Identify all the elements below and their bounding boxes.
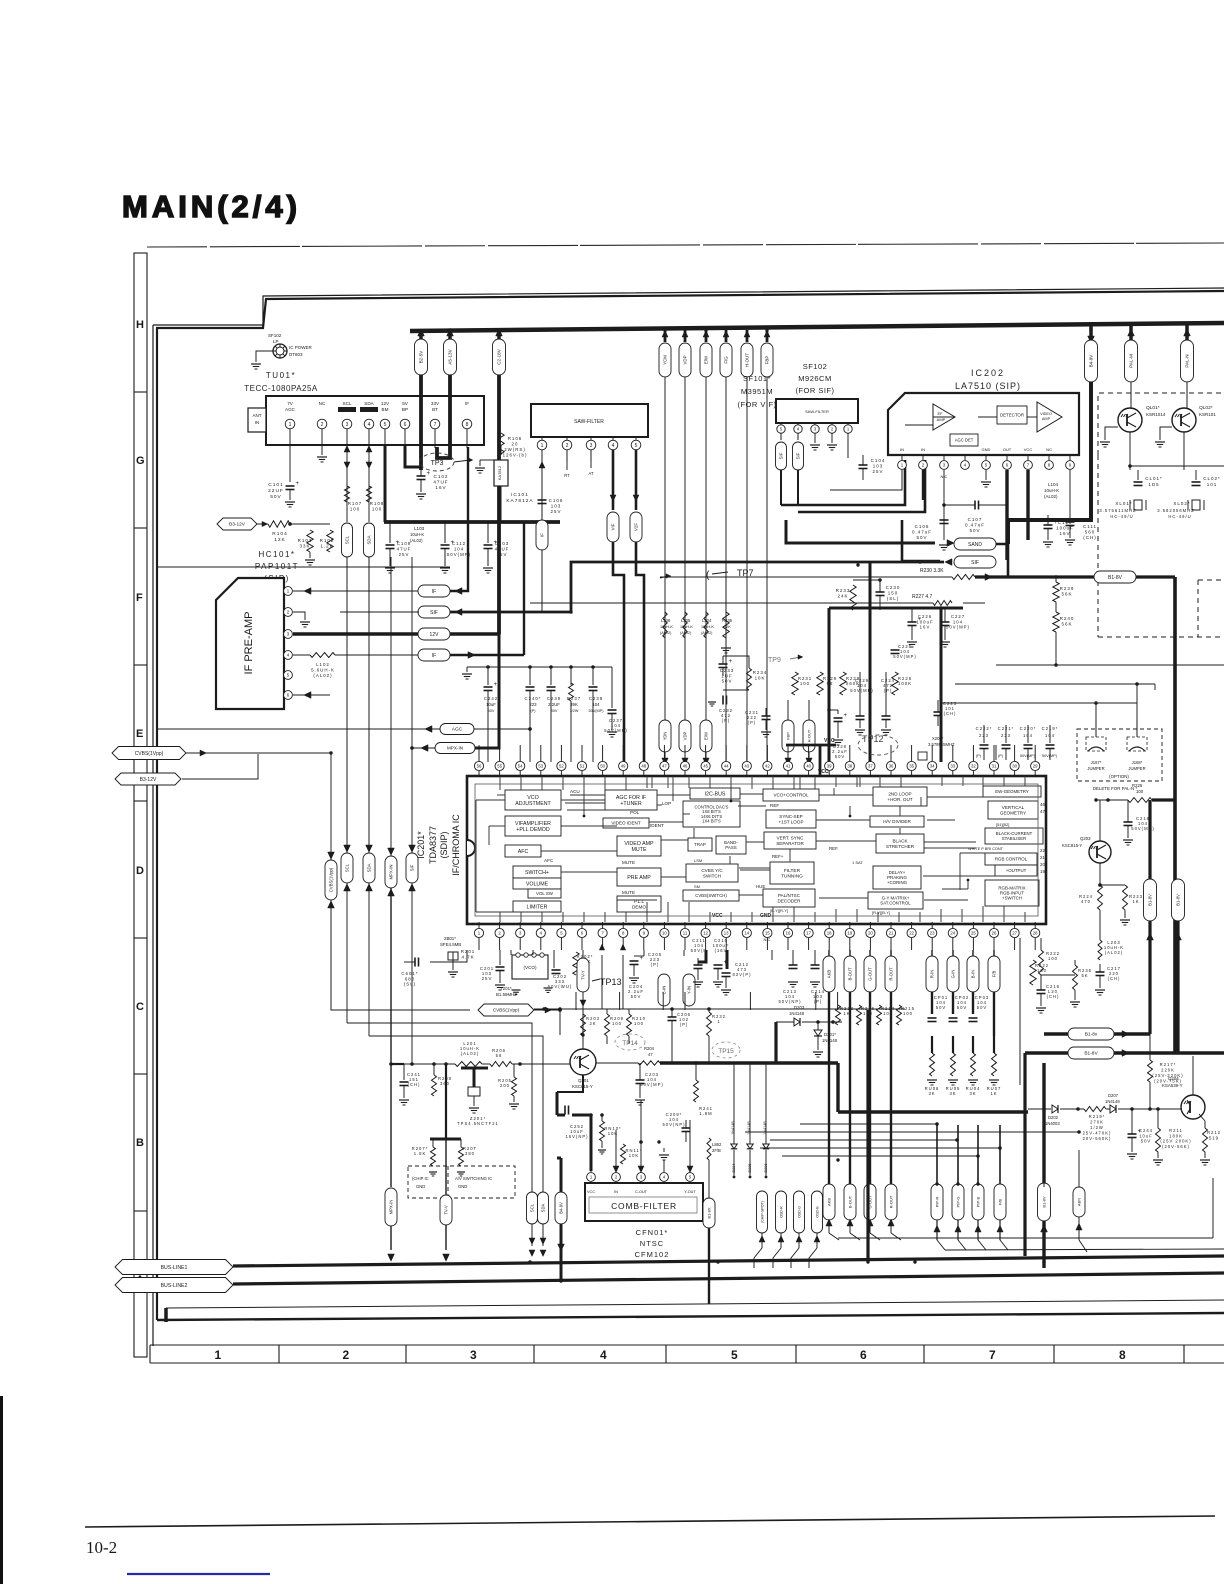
svg-text:AKB: AKB xyxy=(827,970,832,979)
svg-text:E/W: E/W xyxy=(704,732,709,740)
svg-text:M3951M: M3951M xyxy=(741,387,773,396)
svg-text:R103: R103 xyxy=(298,538,313,543)
svg-text:7: 7 xyxy=(989,1348,996,1362)
svg-text:50V: 50V xyxy=(631,994,642,999)
svg-text:5: 5 xyxy=(635,443,638,449)
svg-text:TP15: TP15 xyxy=(718,1048,734,1055)
svg-text:IC201*: IC201* xyxy=(416,831,426,859)
svg-text:15: 15 xyxy=(765,931,770,936)
svg-text:TDA8377: TDA8377 xyxy=(428,826,438,864)
svg-text:48: 48 xyxy=(641,764,646,769)
svg-text:+CORING: +CORING xyxy=(887,880,908,885)
svg-text:50V(NP): 50V(NP) xyxy=(662,1122,685,1127)
svg-text:(FOR VIF): (FOR VIF) xyxy=(737,400,776,409)
svg-text:HC101*: HC101* xyxy=(258,550,295,559)
svg-text:3.575611MHZ: 3.575611MHZ xyxy=(1099,508,1136,513)
svg-text:10: 10 xyxy=(662,931,667,936)
svg-text:3K: 3K xyxy=(969,1091,976,1096)
svg-text:SIF: SIF xyxy=(796,452,801,459)
svg-text:(AL02): (AL02) xyxy=(410,538,423,543)
svg-text:63V(P): 63V(P) xyxy=(732,972,751,977)
svg-text:SCL: SCL xyxy=(345,863,350,872)
svg-text:D207: D207 xyxy=(1108,1093,1119,1098)
svg-text:N.C: N.C xyxy=(764,937,771,942)
svg-text:VIDEO IDENT: VIDEO IDENT xyxy=(611,821,641,826)
svg-text:H: H xyxy=(136,319,144,331)
svg-text:4: 4 xyxy=(368,422,371,428)
svg-text:10K: 10K xyxy=(629,1153,639,1158)
svg-text:SIF: SIF xyxy=(779,452,784,459)
svg-text:16V(NP): 16V(NP) xyxy=(565,1134,588,1139)
svg-text:27: 27 xyxy=(1012,931,1017,936)
svg-text:SM: SM xyxy=(694,884,700,889)
svg-text:47UF: 47UF xyxy=(495,547,510,552)
svg-text:SDA: SDA xyxy=(541,1203,546,1212)
svg-text:VOL SW: VOL SW xyxy=(536,891,554,896)
svg-text:XL02*: XL02* xyxy=(1173,501,1190,506)
svg-text:(CH): (CH) xyxy=(1083,535,1097,540)
svg-text:REF: REF xyxy=(770,803,779,808)
svg-text:(CHIP-SPOT): (CHIP-SPOT) xyxy=(760,1201,764,1223)
svg-text:10uH-K: 10uH-K xyxy=(701,625,714,629)
svg-text:16V: 16V xyxy=(1059,531,1070,536)
svg-text:2: 2 xyxy=(321,422,324,428)
svg-text:HC-49/U: HC-49/U xyxy=(1110,514,1133,519)
svg-text:Q204: Q204 xyxy=(1168,1076,1179,1081)
svg-text:D206: D206 xyxy=(764,1163,768,1172)
svg-text:A5-13V: A5-13V xyxy=(448,348,453,364)
svg-text:(CH): (CH) xyxy=(1047,994,1060,999)
svg-text:SAT.CONTROL: SAT.CONTROL xyxy=(880,901,911,906)
svg-text:3K: 3K xyxy=(949,1091,956,1096)
svg-text:D204: D204 xyxy=(732,1163,736,1172)
svg-text:(CH): (CH) xyxy=(944,711,957,716)
svg-text:D201*: D201* xyxy=(824,1032,836,1037)
svg-text:SDA: SDA xyxy=(367,863,372,872)
svg-text:(AL02): (AL02) xyxy=(701,631,713,635)
svg-text:VCC: VCC xyxy=(587,1190,595,1194)
svg-text:R234: R234 xyxy=(753,670,768,675)
svg-text:MPX-IN: MPX-IN xyxy=(389,1200,394,1215)
svg-text:200: 200 xyxy=(500,1083,510,1088)
svg-text:B1-8V: B1-8V xyxy=(1148,894,1153,906)
svg-text:1N4003: 1N4003 xyxy=(1045,1121,1060,1126)
svg-text:4: 4 xyxy=(612,443,615,449)
svg-text:KSR1014: KSR1014 xyxy=(1146,412,1166,417)
svg-text:51: 51 xyxy=(580,764,585,769)
svg-text:J167*: J167* xyxy=(1091,760,1102,765)
svg-text:D205: D205 xyxy=(748,1163,752,1172)
svg-text:54: 54 xyxy=(518,764,523,769)
svg-text:10uH-K: 10uH-K xyxy=(680,625,693,629)
svg-text:L204: L204 xyxy=(702,618,712,623)
svg-text:37: 37 xyxy=(868,764,873,769)
svg-text:+TUNER: +TUNER xyxy=(620,801,642,807)
svg-text:PIP-G: PIP-G xyxy=(955,1197,960,1208)
svg-text:CVBS(1Vpp): CVBS(1Vpp) xyxy=(329,867,334,892)
svg-text:6: 6 xyxy=(860,1348,867,1362)
svg-text:1D5: 1D5 xyxy=(1148,482,1159,487)
svg-text:D: D xyxy=(136,865,144,877)
svg-text:6: 6 xyxy=(404,422,407,428)
svg-text:BM: BM xyxy=(382,407,389,412)
svg-text:VCO+CONTROL: VCO+CONTROL xyxy=(773,793,809,798)
svg-text:+HOR. OUT: +HOR. OUT xyxy=(887,797,912,802)
svg-text:TPS4.5NCTF21: TPS4.5NCTF21 xyxy=(457,1121,499,1126)
svg-text:0.47uF: 0.47uF xyxy=(965,523,985,528)
svg-text:AGC: AGC xyxy=(285,407,296,412)
svg-text:KSC815-Y: KSC815-Y xyxy=(1062,843,1082,848)
svg-text:10uH-K: 10uH-K xyxy=(410,532,424,537)
svg-text:19: 19 xyxy=(847,931,852,936)
svg-text:(VCO): (VCO) xyxy=(523,965,536,970)
svg-text:2.2UF: 2.2UF xyxy=(548,702,560,707)
svg-text:10uF: 10uF xyxy=(486,702,496,707)
svg-text:SWITCH+: SWITCH+ xyxy=(525,870,549,876)
svg-text:100: 100 xyxy=(800,681,810,686)
svg-text:CVBS(1Vpp): CVBS(1Vpp) xyxy=(135,751,164,757)
svg-text:47: 47 xyxy=(648,1052,653,1057)
svg-text:B3-12V: B3-12V xyxy=(140,777,157,783)
svg-text:5V: 5V xyxy=(402,401,409,406)
svg-text:30: 30 xyxy=(1012,764,1017,769)
svg-text:B1-8X: B1-8X xyxy=(706,1207,711,1218)
svg-text:LOP: LOP xyxy=(662,801,671,806)
svg-text:C227: C227 xyxy=(951,614,965,619)
svg-text:IC101: IC101 xyxy=(511,492,529,498)
svg-text:50V: 50V xyxy=(488,709,495,713)
svg-text:126V-(b): 126V-(b) xyxy=(503,453,528,458)
svg-text:IF PRE-AMP: IF PRE-AMP xyxy=(243,612,255,675)
svg-text:TP7: TP7 xyxy=(737,568,754,578)
svg-text:519: 519 xyxy=(1209,1135,1219,1140)
svg-text:[R-Y][B-Y]: [R-Y][B-Y] xyxy=(872,910,890,915)
svg-text:C242: C242 xyxy=(484,696,498,701)
svg-text:100: 100 xyxy=(372,507,382,512)
svg-text:39: 39 xyxy=(827,764,832,769)
svg-text:CVBS(1Vpp): CVBS(1Vpp) xyxy=(493,1008,520,1013)
svg-text:50V: 50V xyxy=(270,494,282,500)
svg-text:50: 50 xyxy=(600,764,605,769)
svg-text:Y-IN: Y-IN xyxy=(687,986,692,994)
svg-text:SAW-FILTER: SAW-FILTER xyxy=(805,409,829,414)
svg-text:25V-470K): 25V-470K) xyxy=(1083,1131,1112,1136)
svg-text:R233: R233 xyxy=(836,588,851,593)
svg-text:PASS: PASS xyxy=(725,845,736,850)
svg-text:3.582056MHZ: 3.582056MHZ xyxy=(1157,508,1195,513)
svg-text:MPX-IN: MPX-IN xyxy=(389,864,394,879)
svg-text:104: 104 xyxy=(592,702,600,707)
svg-text:50V: 50V xyxy=(957,1005,967,1010)
svg-text:NTSC: NTSC xyxy=(640,1239,664,1248)
svg-text:C-IN: C-IN xyxy=(662,986,667,995)
svg-text:FILTER: FILTER xyxy=(784,868,801,874)
svg-text:VIDEO: VIDEO xyxy=(1040,412,1052,416)
svg-text:QL02*: QL02* xyxy=(1199,405,1213,411)
svg-text:B1-8V: B1-8V xyxy=(1108,575,1123,581)
svg-text:LA7510 (SIP): LA7510 (SIP) xyxy=(955,381,1021,391)
svg-text:(SL): (SL) xyxy=(404,982,416,987)
svg-text:QL01*: QL01* xyxy=(1146,405,1160,411)
svg-text:BUS-LINE2: BUS-LINE2 xyxy=(161,1283,188,1289)
svg-text:VDP: VDP xyxy=(683,355,688,364)
svg-text:BT: BT xyxy=(432,407,438,412)
svg-text:SDA: SDA xyxy=(367,535,372,544)
svg-text:25V: 25V xyxy=(872,469,883,474)
svg-text:1N4148: 1N4148 xyxy=(822,1038,838,1043)
svg-text:E/W: E/W xyxy=(704,355,709,364)
svg-text:AMP: AMP xyxy=(937,417,946,422)
svg-text:2: 2 xyxy=(566,443,569,449)
svg-text:1: 1 xyxy=(289,422,292,428)
svg-text:50V(MP): 50V(MP) xyxy=(640,1082,664,1087)
svg-text:DT803: DT803 xyxy=(289,352,303,357)
svg-text:LP: LP xyxy=(273,339,279,344)
svg-text:POL: POL xyxy=(630,810,640,815)
svg-text:AT: AT xyxy=(588,471,593,476)
svg-text:IF: IF xyxy=(540,533,545,537)
svg-text:HC-49/U: HC-49/U xyxy=(1168,514,1191,519)
svg-text:EF: EF xyxy=(937,411,943,416)
svg-text:10K: 10K xyxy=(608,1131,618,1136)
svg-text:56K: 56K xyxy=(1061,592,1072,597)
svg-text:M926CM: M926CM xyxy=(798,374,831,383)
svg-text:44: 44 xyxy=(724,764,729,769)
svg-text:23: 23 xyxy=(930,931,935,936)
svg-text:ADJUSTMENT: ADJUSTMENT xyxy=(515,801,551,807)
svg-text:50V(MP): 50V(MP) xyxy=(850,688,874,693)
svg-text:G-OUT: G-OUT xyxy=(868,967,873,981)
svg-text:180K: 180K xyxy=(1169,1133,1183,1138)
svg-text:VIF: VIF xyxy=(611,523,616,530)
svg-text:SWITCH: SWITCH xyxy=(703,873,721,878)
svg-text:IF/CHROMA IC: IF/CHROMA IC xyxy=(451,814,461,876)
svg-text:SF101*: SF101* xyxy=(743,374,771,383)
svg-text:10uH-K: 10uH-K xyxy=(660,625,673,629)
svg-text:+SWITCH: +SWITCH xyxy=(1002,896,1022,901)
svg-text:(AL02): (AL02) xyxy=(1044,494,1058,499)
svg-text:TP13: TP13 xyxy=(600,977,622,987)
svg-text:SDA: SDA xyxy=(364,401,374,406)
svg-text:50V: 50V xyxy=(1141,1139,1151,1144)
svg-text:L104: L104 xyxy=(1048,482,1059,487)
svg-text:IC202: IC202 xyxy=(971,368,1005,378)
svg-text:TP9: TP9 xyxy=(768,657,781,664)
svg-text:SF102: SF102 xyxy=(803,362,828,371)
svg-text:KA7812: KA7812 xyxy=(497,465,502,480)
svg-text:GND: GND xyxy=(458,1184,467,1189)
svg-text:RGB CONTROL: RGB CONTROL xyxy=(995,857,1028,862)
svg-text:DECODER: DECODER xyxy=(778,898,802,903)
svg-text:(CHIP IC: (CHIP IC xyxy=(412,1176,429,1181)
svg-text:68: 68 xyxy=(827,681,834,686)
svg-text:VCC: VCC xyxy=(818,769,829,775)
svg-text:R-OUT: R-OUT xyxy=(888,1195,893,1208)
svg-text:22UF: 22UF xyxy=(268,488,284,494)
svg-text:100: 100 xyxy=(634,1021,644,1026)
svg-text:100: 100 xyxy=(883,1011,893,1016)
svg-text:KA7812A: KA7812A xyxy=(506,498,533,504)
svg-text:41: 41 xyxy=(786,764,791,769)
svg-text:1K: 1K xyxy=(843,1011,850,1016)
svg-text:R204: R204 xyxy=(644,1046,655,1051)
svg-text:39K: 39K xyxy=(570,702,578,707)
svg-text:100K: 100K xyxy=(898,681,912,686)
svg-text:B-OUT: B-OUT xyxy=(847,1195,852,1208)
svg-text:VCC: VCC xyxy=(1024,447,1033,452)
svg-text:47: 47 xyxy=(662,764,667,769)
svg-text:104: 104 xyxy=(454,547,464,552)
svg-text:JUMPER: JUMPER xyxy=(1128,766,1145,771)
svg-text:IDENT: IDENT xyxy=(650,823,664,828)
svg-text:ANT: ANT xyxy=(253,413,262,418)
svg-text:50V(MP): 50V(MP) xyxy=(893,654,917,659)
svg-text:B1-8V: B1-8V xyxy=(1084,1051,1098,1057)
svg-text:1/2W: 1/2W xyxy=(570,709,579,713)
svg-text:REF+: REF+ xyxy=(772,854,784,859)
svg-text:19: 19 xyxy=(1040,869,1045,874)
svg-text:10uH-K: 10uH-K xyxy=(1044,488,1059,493)
svg-text:3: 3 xyxy=(470,1348,477,1362)
svg-text:C233: C233 xyxy=(720,668,735,673)
svg-text:10uF: 10uF xyxy=(1139,1133,1153,1138)
svg-text:+PLL DEMOD: +PLL DEMOD xyxy=(516,827,550,833)
svg-text:R211: R211 xyxy=(1169,1128,1183,1133)
svg-text:TP14: TP14 xyxy=(622,1040,638,1047)
svg-text:MAIN(2/4): MAIN(2/4) xyxy=(122,189,301,224)
svg-text:33K: 33K xyxy=(299,544,310,549)
svg-text:R201: R201 xyxy=(461,949,476,954)
svg-text:25V: 25V xyxy=(550,509,561,514)
svg-text:R102: R102 xyxy=(320,538,335,543)
svg-text:G-IN: G-IN xyxy=(951,970,956,979)
svg-text:1.2K: 1.2K xyxy=(320,544,333,549)
svg-text:IF: IF xyxy=(465,401,469,406)
svg-text:1: 1 xyxy=(717,1019,720,1024)
svg-text:DEMO: DEMO xyxy=(632,904,646,909)
svg-text:AGC: AGC xyxy=(452,727,463,733)
svg-text:L103: L103 xyxy=(414,526,425,531)
svg-text:GND: GND xyxy=(982,447,991,452)
svg-text:13: 13 xyxy=(724,931,729,936)
svg-text:B1-8V: B1-8V xyxy=(1041,1196,1046,1207)
svg-text:B4-9V: B4-9V xyxy=(559,1202,564,1214)
svg-text:25V: 25V xyxy=(482,976,493,981)
svg-text:SIF: SIF xyxy=(410,864,415,871)
svg-text:1: 1 xyxy=(541,443,544,449)
svg-text:C103: C103 xyxy=(495,541,510,546)
svg-text:+: + xyxy=(844,713,848,719)
svg-text:+: + xyxy=(494,682,498,688)
svg-text:50V: 50V xyxy=(977,1005,987,1010)
svg-text:(CH): (CH) xyxy=(408,1082,421,1087)
svg-text:ABN: ABN xyxy=(1076,1198,1081,1206)
svg-text:FBP: FBP xyxy=(765,356,770,365)
svg-text:OSD-B: OSD-B xyxy=(815,1206,819,1218)
svg-text:2: 2 xyxy=(343,1348,350,1362)
svg-text:100: 100 xyxy=(1048,956,1058,961)
svg-text:F: F xyxy=(136,592,143,604)
svg-text:(P): (P) xyxy=(748,720,757,725)
svg-text:PRE AMP: PRE AMP xyxy=(627,875,651,881)
svg-text:(P): (P) xyxy=(530,709,536,713)
svg-text:3.579545MHZ: 3.579545MHZ xyxy=(928,742,955,747)
svg-text:11: 11 xyxy=(683,931,688,936)
svg-text:B1-8V: B1-8V xyxy=(1176,894,1181,906)
svg-text:SIF: SIF xyxy=(971,560,979,566)
svg-text:TU01*: TU01* xyxy=(266,371,296,380)
svg-text:47: 47 xyxy=(1040,809,1046,814)
svg-text:C107: C107 xyxy=(968,517,983,522)
svg-text:47UF: 47UF xyxy=(433,480,448,485)
svg-text:5.6UH-K: 5.6UH-K xyxy=(311,668,335,673)
svg-text:PAL-M: PAL-M xyxy=(1129,354,1134,368)
svg-text:1: 1 xyxy=(215,1348,222,1362)
svg-text:JUMPER: JUMPER xyxy=(1087,766,1104,771)
svg-text:R219*: R219* xyxy=(1089,1114,1106,1119)
svg-text:C: C xyxy=(136,1001,144,1013)
svg-text:F/G: F/G xyxy=(724,356,729,364)
svg-text:D203: D203 xyxy=(794,1005,805,1010)
svg-text:56: 56 xyxy=(496,1053,503,1058)
svg-text:12V: 12V xyxy=(430,632,440,638)
svg-text:(AL02): (AL02) xyxy=(1105,950,1124,955)
svg-text:50V: 50V xyxy=(722,679,733,684)
svg-text:223: 223 xyxy=(529,702,537,707)
svg-text:LIMITER: LIMITER xyxy=(527,904,548,910)
svg-text:33V: 33V xyxy=(431,401,440,406)
svg-text:L206: L206 xyxy=(661,618,671,623)
svg-text:21: 21 xyxy=(889,931,894,936)
svg-text:7: 7 xyxy=(434,422,437,428)
svg-text:SAW-FILTER: SAW-FILTER xyxy=(574,419,604,425)
svg-text:OUT: OUT xyxy=(1003,447,1012,452)
svg-text:46: 46 xyxy=(1040,802,1046,807)
svg-text:PAL-N: PAL-N xyxy=(1185,354,1190,367)
svg-text:380: 380 xyxy=(465,1151,475,1156)
svg-text:R227 4.7: R227 4.7 xyxy=(912,594,933,600)
svg-text:R107: R107 xyxy=(348,501,363,506)
svg-text:C226: C226 xyxy=(918,614,932,619)
svg-text:12: 12 xyxy=(703,931,708,936)
svg-text:(AL02): (AL02) xyxy=(461,1051,480,1056)
svg-text:LSM: LSM xyxy=(694,858,702,863)
svg-text:24: 24 xyxy=(950,931,955,936)
svg-text:EW-GEOMETRY: EW-GEOMETRY xyxy=(995,789,1029,794)
svg-text:TV-Y: TV-Y xyxy=(581,970,586,980)
svg-text:SIF: SIF xyxy=(430,610,438,616)
svg-text:V2F: V2F xyxy=(634,523,639,531)
svg-text:50V(MP): 50V(MP) xyxy=(946,625,970,630)
svg-text:L205: L205 xyxy=(681,618,691,623)
svg-text:R104: R104 xyxy=(272,531,287,537)
svg-text:150: 150 xyxy=(888,591,899,596)
svg-text:22K: 22K xyxy=(724,625,731,629)
svg-text:C105: C105 xyxy=(915,524,930,529)
svg-text:2K: 2K xyxy=(589,1021,596,1026)
svg-text:29: 29 xyxy=(1033,764,1038,769)
svg-text:52: 52 xyxy=(559,764,564,769)
svg-text:49: 49 xyxy=(621,764,626,769)
svg-text:20: 20 xyxy=(1040,862,1045,867)
svg-text:H-OUT: H-OUT xyxy=(745,353,750,367)
svg-text:I2C-BUS: I2C-BUS xyxy=(705,791,726,797)
svg-text:BP: BP xyxy=(402,407,408,412)
svg-text:MPX-IN: MPX-IN xyxy=(447,746,463,751)
svg-text:B3-12V: B3-12V xyxy=(229,522,246,528)
svg-text:4.7K: 4.7K xyxy=(461,954,474,959)
svg-text:J168*: J168* xyxy=(1132,760,1143,765)
